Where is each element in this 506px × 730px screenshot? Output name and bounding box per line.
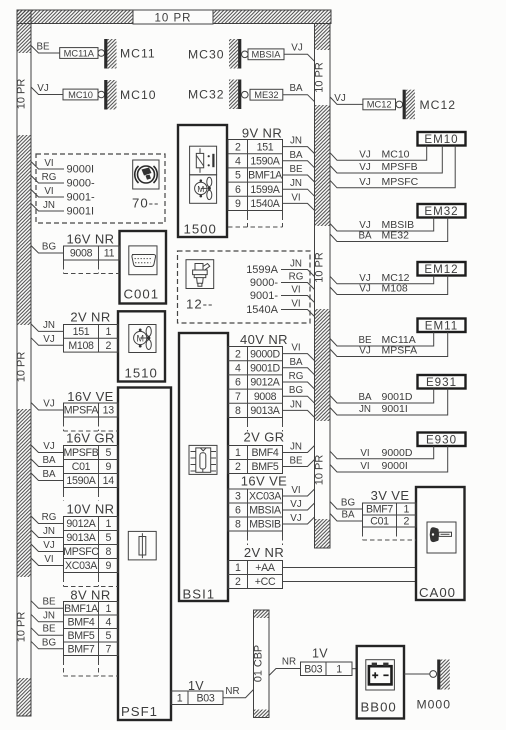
wire VJ MC10 to EM10	[330, 146, 427, 161]
svg-text:MBSIB: MBSIB	[249, 519, 281, 531]
svg-text:1V: 1V	[312, 647, 328, 661]
svg-text:MC11A: MC11A	[64, 48, 95, 58]
svg-text:9008: 9008	[70, 248, 93, 260]
svg-text:9008: 9008	[254, 391, 277, 403]
wire 1540A to right bar	[281, 310, 315, 317]
wire BE MC11A to EM11	[330, 332, 434, 346]
wire JN from 2V GR to right bar	[283, 446, 315, 453]
svg-text:VJ: VJ	[43, 441, 55, 452]
svg-text:MBSIA: MBSIA	[252, 50, 282, 60]
svg-text:BB00: BB00	[361, 700, 397, 715]
component 1510 box	[118, 311, 165, 381]
interconnect bar 01 CBP	[254, 610, 270, 718]
table 16V VE (PSF1)	[64, 403, 119, 417]
table 16V VE dashed extension	[247, 531, 249, 536]
svg-text:BG: BG	[341, 498, 355, 509]
svg-text:VI: VI	[291, 343, 300, 354]
svg-text:JN: JN	[43, 200, 55, 211]
wire +AA to CA00	[283, 567, 417, 569]
svg-text:1599A: 1599A	[250, 184, 280, 196]
svg-text:1590A: 1590A	[66, 475, 96, 487]
svg-text:B03: B03	[304, 663, 322, 675]
table 2V GR	[228, 446, 283, 474]
wire JN to 151	[31, 324, 64, 332]
svg-text:VJ: VJ	[43, 334, 55, 345]
svg-text:9013A: 9013A	[250, 405, 280, 417]
svg-text:10 PR: 10 PR	[155, 13, 192, 25]
wire VJ to 16V GR row	[31, 445, 64, 453]
svg-text:BMF5: BMF5	[67, 630, 94, 642]
svg-text:VJ: VJ	[290, 499, 302, 510]
wire +CC to CA00	[283, 581, 417, 583]
svg-text:9001-: 9001-	[250, 290, 278, 302]
svg-text:NR: NR	[225, 686, 239, 697]
wire VI to 9000I	[31, 162, 64, 170]
svg-text:VJ: VJ	[359, 346, 371, 357]
svg-text:MC30: MC30	[188, 47, 225, 61]
svg-text:EM32: EM32	[424, 205, 458, 218]
wire VJ MC12 to EM12	[330, 276, 434, 284]
svg-text:JN: JN	[290, 399, 302, 410]
svg-text:4: 4	[235, 156, 241, 168]
svg-text:B03: B03	[197, 692, 215, 704]
wire VI 9000D to E930	[330, 446, 434, 459]
svg-text:BA: BA	[341, 510, 355, 521]
svg-text:BA: BA	[358, 392, 372, 403]
icon injector	[186, 260, 214, 289]
svg-text:9000I: 9000I	[382, 460, 408, 472]
ground M000	[430, 671, 437, 678]
svg-text:BMF7: BMF7	[366, 504, 393, 516]
wire BG to BMF7	[330, 502, 363, 510]
wire BA 9001D to E931	[330, 389, 434, 404]
svg-text:BMF4: BMF4	[67, 616, 94, 628]
svg-text:EM10: EM10	[424, 133, 458, 146]
svg-text:RG: RG	[289, 371, 304, 382]
svg-text:VJ: VJ	[359, 284, 371, 295]
svg-text:BA: BA	[358, 231, 372, 242]
svg-text:JN: JN	[43, 610, 55, 621]
wire VJ from 16V VE to right bar	[283, 517, 315, 524]
wire JN from 9V NR row to right bar	[283, 189, 315, 196]
svg-text:JN: JN	[290, 178, 302, 189]
wire VI from 9V NR row to right bar	[283, 203, 315, 210]
wire 1599A to right bar	[281, 270, 315, 277]
svg-text:BE: BE	[289, 456, 303, 467]
svg-text:JN: JN	[290, 136, 302, 147]
icon diagnostic connector	[129, 246, 157, 275]
wire BA from 40V NR to right bar	[283, 368, 315, 375]
svg-text:BMF5: BMF5	[251, 461, 278, 473]
svg-text:MPSFB: MPSFB	[382, 161, 418, 173]
svg-text:+CC: +CC	[255, 576, 276, 588]
svg-text:1: 1	[105, 326, 111, 338]
svg-text:VJ: VJ	[291, 43, 303, 54]
svg-text:9000I: 9000I	[67, 164, 95, 176]
table 16V NR dashed extension	[63, 260, 65, 265]
svg-text:+AA: +AA	[255, 562, 276, 574]
svg-text:VJ: VJ	[359, 149, 371, 160]
wire BA to 16V GR row	[31, 473, 64, 481]
svg-text:2: 2	[235, 461, 241, 473]
svg-text:VJ: VJ	[359, 162, 371, 173]
svg-text:70--: 70--	[132, 196, 159, 211]
wire VI from 40V NR to right bar	[283, 354, 315, 361]
svg-text:XC03A: XC03A	[249, 491, 282, 503]
svg-text:JN: JN	[290, 442, 302, 453]
svg-text:16V NR: 16V NR	[67, 232, 115, 247]
svg-text:5: 5	[235, 170, 241, 182]
svg-text:1: 1	[235, 562, 241, 574]
wire BG to 8V NR row	[31, 641, 64, 649]
svg-text:9012A: 9012A	[250, 377, 280, 389]
svg-text:16V VE: 16V VE	[67, 389, 114, 404]
svg-text:BE: BE	[358, 335, 372, 346]
wire VJ to 10V NR row	[31, 544, 64, 552]
svg-text:MPSFC: MPSFC	[382, 176, 419, 188]
table 1V (PSF1)	[171, 691, 223, 705]
svg-text:151: 151	[73, 326, 90, 338]
table 9V NR dashed extension	[247, 211, 249, 216]
svg-text:CA00: CA00	[419, 585, 456, 600]
wire VJ MBSIB to EM32	[330, 218, 434, 232]
svg-text:10 PR: 10 PR	[16, 79, 28, 110]
svg-text:C001: C001	[124, 287, 160, 302]
svg-text:BMF1A: BMF1A	[248, 170, 283, 182]
interconnect bar right 10 PR (hatched segments)	[315, 24, 331, 51]
svg-text:RG: RG	[42, 512, 57, 523]
wire BA to C01	[330, 514, 363, 522]
svg-text:BG: BG	[289, 385, 303, 396]
svg-text:JN: JN	[359, 404, 371, 415]
icon BSI module	[189, 445, 217, 474]
interconnect bar 10 PR top	[17, 10, 331, 24]
svg-text:9: 9	[235, 198, 241, 210]
wire BA to 16V GR row	[31, 459, 64, 467]
svg-text:EM11: EM11	[425, 319, 458, 332]
wire VI to 10V NR row	[31, 558, 64, 566]
svg-text:E931: E931	[426, 376, 457, 389]
svg-text:BMF4: BMF4	[251, 447, 278, 459]
svg-text:12--: 12--	[186, 297, 213, 312]
svg-text:1: 1	[235, 447, 241, 459]
table 2V NR (BSI1)	[228, 561, 283, 589]
svg-text:VJ: VJ	[359, 273, 371, 284]
svg-text:VI: VI	[291, 285, 300, 296]
svg-text:6: 6	[235, 377, 241, 389]
wire VJ MPSFB to EM10	[330, 146, 442, 174]
svg-text:9001I: 9001I	[67, 206, 95, 218]
svg-text:JN: JN	[43, 320, 55, 331]
svg-text:5: 5	[105, 447, 111, 459]
wire JN from 40V NR to right bar	[283, 410, 315, 417]
svg-text:C01: C01	[370, 516, 389, 528]
wire BE from 9V NR row to right bar	[283, 175, 315, 182]
svg-text:VJ: VJ	[290, 513, 302, 524]
connector MC10	[63, 89, 98, 100]
wire JN to 8V NR row	[31, 614, 64, 622]
component 12-- dashed box	[178, 251, 311, 323]
svg-text:VI: VI	[291, 485, 300, 496]
table 40V NR	[228, 347, 283, 418]
ground MC32	[229, 80, 238, 110]
svg-text:BA: BA	[289, 150, 303, 161]
icon receiver 70--	[133, 160, 159, 189]
table 16V NR	[64, 246, 120, 260]
svg-text:M108: M108	[382, 283, 408, 295]
svg-text:MC11: MC11	[120, 47, 156, 61]
interconnect bar left 10 PR (hatched segments)	[17, 10, 31, 53]
icon fuse (PSF1)	[128, 531, 156, 560]
table 8V NR	[64, 602, 119, 656]
svg-text:VJ: VJ	[334, 93, 346, 104]
connector MBSIA	[248, 49, 284, 60]
svg-text:JN: JN	[43, 526, 55, 537]
component BB00 box	[357, 646, 404, 719]
connector EM11	[418, 319, 466, 333]
wire 9000- to right bar	[281, 283, 315, 290]
svg-text:2: 2	[235, 348, 241, 360]
connector EM12	[418, 262, 466, 276]
svg-text:9000D: 9000D	[382, 447, 413, 459]
wire JN 9001I to E931	[330, 389, 448, 416]
svg-text:1: 1	[105, 603, 111, 615]
top bar label box 10 PR	[133, 10, 213, 24]
svg-text:2: 2	[403, 516, 409, 528]
wire BE to MC11A	[31, 46, 60, 54]
svg-text:M: M	[136, 334, 144, 344]
wire VJ from MBSIA to right bar	[284, 54, 315, 61]
table 3V VE dashed extension	[362, 527, 364, 532]
wire JN to 9001I	[31, 204, 64, 212]
svg-text:VI: VI	[360, 448, 369, 459]
svg-text:6: 6	[235, 184, 241, 196]
svg-text:BG: BG	[42, 242, 56, 253]
wire VJ to MC12	[330, 97, 363, 105]
svg-text:RG: RG	[42, 172, 57, 183]
svg-text:9000-: 9000-	[67, 178, 95, 190]
svg-text:BA: BA	[42, 455, 56, 466]
svg-text:2V NR: 2V NR	[70, 310, 110, 325]
table 16V VE (BSI1)	[228, 489, 283, 531]
svg-text:BMF7: BMF7	[67, 643, 94, 655]
wire BA from ME32 to right bar	[283, 95, 315, 102]
wire VI 9000I to E930	[330, 446, 448, 472]
connector E930	[418, 433, 466, 447]
svg-text:VJ: VJ	[43, 540, 55, 551]
svg-text:11: 11	[104, 248, 115, 260]
svg-text:10 PR: 10 PR	[314, 455, 326, 486]
svg-text:BA: BA	[289, 83, 303, 94]
wire BG from 40V NR to right bar	[283, 396, 315, 403]
svg-text:10 PR: 10 PR	[314, 62, 326, 93]
wire VJ MPSFC to EM10	[330, 146, 455, 188]
wire BA from 9V NR row to right bar	[283, 161, 315, 168]
svg-text:BG: BG	[42, 637, 56, 648]
svg-text:PSF1: PSF1	[121, 704, 158, 719]
svg-text:MC32: MC32	[188, 88, 225, 102]
svg-text:1599A: 1599A	[246, 264, 278, 276]
svg-text:8: 8	[235, 519, 241, 531]
wire BG to 9008	[31, 246, 64, 254]
wire VJ M108 to EM12	[330, 276, 448, 295]
svg-text:8V NR: 8V NR	[70, 588, 110, 603]
svg-text:9000D: 9000D	[250, 348, 280, 360]
wire VJ to M108	[31, 338, 64, 346]
connector EM32	[418, 204, 466, 218]
svg-text:4: 4	[235, 363, 241, 375]
wire B03 to BB00	[352, 668, 357, 670]
connector ME32	[250, 89, 283, 100]
svg-text:VJ: VJ	[359, 220, 371, 231]
svg-text:MC10: MC10	[120, 88, 157, 102]
wire BB00 to M000	[404, 673, 430, 675]
svg-text:MPSFC: MPSFC	[63, 546, 99, 558]
svg-text:1500: 1500	[184, 222, 217, 237]
wire BA ME32 to EM32	[330, 218, 448, 242]
svg-text:BA: BA	[42, 469, 56, 480]
svg-text:VJ: VJ	[37, 83, 49, 94]
svg-text:BMF1A: BMF1A	[64, 603, 99, 615]
wire BE to 8V NR row	[31, 601, 64, 609]
wire NR from B03 to 01 CBP bar	[223, 690, 254, 698]
wire VJ MPSFA to EM11	[330, 332, 448, 357]
svg-text:10 PR: 10 PR	[16, 352, 28, 383]
svg-text:MPSFA: MPSFA	[382, 345, 418, 357]
svg-text:9001I: 9001I	[382, 403, 408, 415]
svg-text:9001D: 9001D	[382, 391, 413, 403]
connector MC11A	[60, 48, 98, 59]
svg-text:151: 151	[257, 141, 274, 153]
svg-text:1: 1	[403, 504, 409, 516]
svg-text:1: 1	[105, 518, 111, 530]
svg-text:6: 6	[235, 505, 241, 517]
svg-text:MPSFA: MPSFA	[64, 405, 100, 417]
table 16V VE dashed extension	[63, 417, 65, 422]
table 2V NR (1510)	[64, 325, 119, 353]
svg-text:C01: C01	[72, 461, 91, 473]
component 1500 box	[178, 125, 227, 237]
svg-text:ME32: ME32	[382, 230, 410, 242]
wire VJ to MC10	[31, 87, 63, 95]
svg-text:1540A: 1540A	[246, 304, 278, 316]
svg-text:MPSFB: MPSFB	[64, 447, 99, 459]
svg-text:MC10: MC10	[382, 148, 410, 160]
connector MC12	[363, 99, 396, 110]
svg-text:1: 1	[177, 692, 183, 704]
svg-text:16V VE: 16V VE	[241, 474, 288, 489]
wire VJ from 16V VE to right bar	[283, 503, 315, 510]
svg-text:2V NR: 2V NR	[244, 545, 284, 560]
table 16V GR dashed extension	[63, 488, 65, 493]
svg-text:5: 5	[105, 630, 111, 642]
wire NR from 01 CBP to B03	[269, 669, 301, 676]
table 16V GR	[64, 446, 119, 488]
connector E931	[418, 375, 466, 389]
svg-text:9001-: 9001-	[67, 192, 95, 204]
component PSF1 box	[118, 388, 171, 721]
svg-text:VI: VI	[44, 158, 53, 169]
svg-text:7: 7	[235, 391, 241, 403]
svg-text:2: 2	[105, 340, 111, 352]
svg-text:2: 2	[235, 141, 241, 153]
svg-text:13: 13	[103, 405, 115, 417]
icon fan resistor	[190, 146, 217, 175]
svg-text:14: 14	[103, 475, 115, 487]
svg-text:MC10: MC10	[68, 90, 93, 100]
ground MC11	[98, 50, 105, 57]
svg-text:1590A: 1590A	[250, 156, 280, 168]
table 40V NR dashed extension	[247, 418, 249, 423]
svg-text:VI: VI	[291, 192, 300, 203]
svg-text:MC12: MC12	[367, 100, 392, 110]
svg-text:BSI1: BSI1	[183, 587, 216, 602]
svg-text:BA: BA	[289, 357, 303, 368]
svg-text:10V NR: 10V NR	[67, 502, 115, 517]
ground MC12	[396, 101, 403, 108]
connector EM10	[418, 132, 466, 146]
wire RG to 9000-	[31, 176, 64, 184]
svg-text:9013A: 9013A	[66, 532, 96, 544]
component 70-- dashed box	[36, 154, 165, 223]
svg-text:BE: BE	[289, 164, 303, 175]
svg-text:BE: BE	[42, 597, 56, 608]
svg-text:8: 8	[105, 546, 111, 558]
wire VJ to MPSFA	[31, 403, 64, 411]
svg-text:E930: E930	[426, 433, 457, 446]
wire JN from 9V NR row to right bar	[283, 147, 315, 154]
table 10V NR	[64, 517, 119, 573]
svg-text:2V GR: 2V GR	[243, 430, 284, 445]
svg-text:4: 4	[105, 616, 111, 628]
svg-text:10 PR: 10 PR	[16, 612, 28, 643]
svg-text:9: 9	[105, 461, 111, 473]
wire VI to 9001-	[31, 190, 64, 198]
svg-text:RG: RG	[289, 272, 304, 283]
svg-text:VI: VI	[360, 461, 369, 472]
svg-text:9001D: 9001D	[250, 363, 280, 375]
ground MC30	[229, 39, 238, 69]
svg-text:1540A: 1540A	[250, 198, 280, 210]
svg-text:VJ: VJ	[359, 177, 371, 188]
component BSI1 box	[179, 333, 228, 601]
svg-text:8: 8	[235, 405, 241, 417]
svg-text:NR: NR	[282, 657, 296, 668]
svg-text:BE: BE	[36, 42, 50, 53]
wire VI from 16V VE to right bar	[283, 489, 315, 496]
table 9V NR	[228, 140, 283, 211]
svg-text:5: 5	[105, 532, 111, 544]
svg-text:10 PR: 10 PR	[314, 252, 326, 283]
svg-text:9012A: 9012A	[66, 518, 96, 530]
svg-text:3V VE: 3V VE	[371, 488, 410, 503]
table 8V NR dashed extension	[63, 656, 65, 661]
svg-text:MBSIA: MBSIA	[249, 505, 282, 517]
wire BE from 2V GR to right bar	[283, 460, 315, 467]
svg-text:9V NR: 9V NR	[242, 126, 282, 141]
svg-text:01 CBP: 01 CBP	[252, 645, 264, 682]
svg-text:16V GR: 16V GR	[66, 431, 115, 446]
svg-text:VI: VI	[291, 299, 300, 310]
wire RG to 10V NR row	[31, 516, 64, 524]
svg-text:EM12: EM12	[424, 263, 458, 276]
svg-text:VI: VI	[44, 554, 53, 565]
svg-text:XC03A: XC03A	[65, 560, 98, 572]
component CA00 box	[416, 487, 465, 600]
svg-text:3: 3	[235, 491, 241, 503]
svg-text:1510: 1510	[125, 366, 158, 381]
svg-text:M108: M108	[68, 340, 94, 352]
